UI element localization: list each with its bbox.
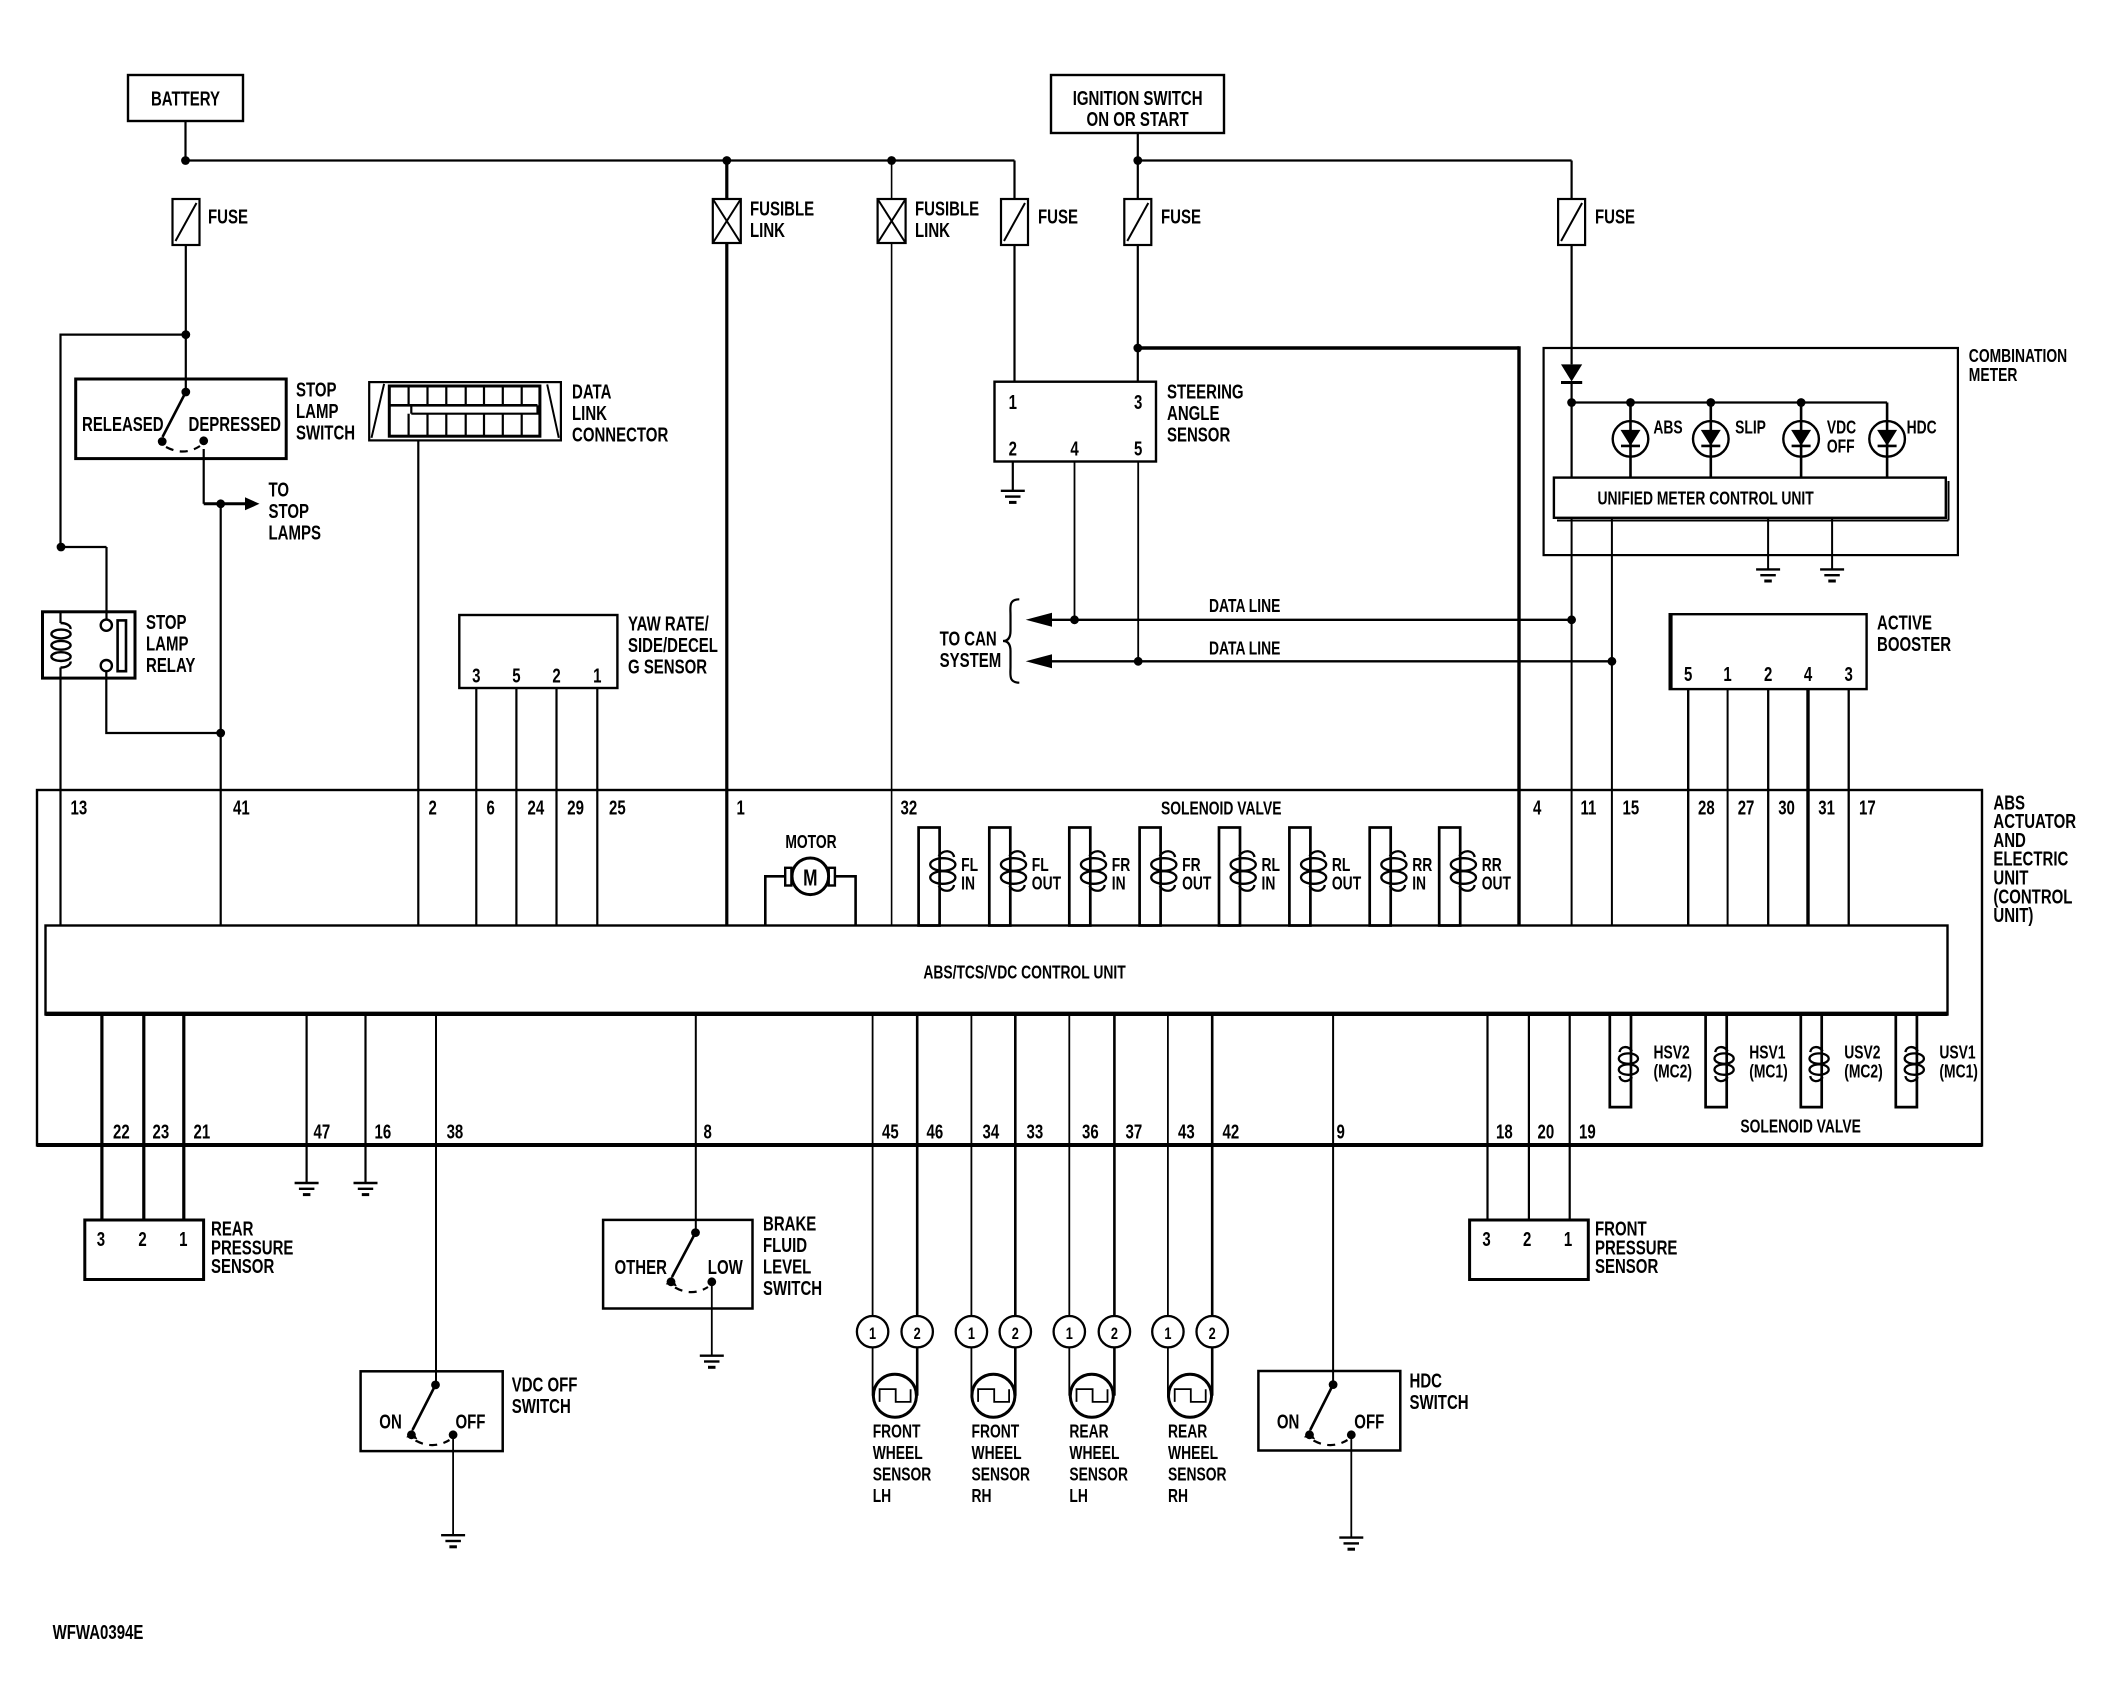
wire top supply bus (battery) xyxy=(186,159,1015,161)
svg-text:(MC2): (MC2) xyxy=(1844,1062,1883,1082)
svg-text:45: 45 xyxy=(882,1120,899,1143)
svg-text:2: 2 xyxy=(1111,1324,1118,1343)
svg-text:USV1: USV1 xyxy=(1939,1043,1975,1063)
wheel sensor FRONT WHEEL SENSOR RH xyxy=(956,1316,987,1347)
svg-text:STEERING: STEERING xyxy=(1167,380,1244,403)
svg-text:SENSOR: SENSOR xyxy=(1595,1255,1658,1278)
wire relay to ABS pin 13 xyxy=(59,678,61,790)
wheel sensor FRONT WHEEL SENSOR LH xyxy=(857,1316,888,1347)
ABS/TCS/VDC control unit U1a xyxy=(46,926,1948,1015)
warning lamp SLIP xyxy=(1710,403,1713,478)
wire fuse F4 to combination meter xyxy=(1570,245,1572,364)
svg-text:OFF: OFF xyxy=(1827,437,1855,457)
svg-text:FR: FR xyxy=(1112,855,1131,875)
solenoid valve USV2 (MC2) xyxy=(1801,1015,1822,1108)
svg-text:15: 15 xyxy=(1623,796,1640,819)
svg-text:HSV2: HSV2 xyxy=(1654,1043,1690,1063)
HDC switch S4 xyxy=(1258,1371,1400,1451)
svg-text:LEVEL: LEVEL xyxy=(763,1255,811,1278)
svg-text:2: 2 xyxy=(1012,1324,1019,1343)
wire pin 1 internal xyxy=(725,790,728,926)
wire bus drop to fusible link 2 xyxy=(891,161,893,200)
svg-text:STOP: STOP xyxy=(269,500,310,523)
wire yaw pin3 to ABS pin 6 xyxy=(475,688,477,790)
svg-text:6: 6 xyxy=(487,796,495,819)
wire lamp bus feed down xyxy=(1570,403,1572,478)
svg-text:SWITCH: SWITCH xyxy=(512,1395,571,1418)
wire pin 42 to rear wheel sensor RH xyxy=(1211,1015,1214,1317)
wire pin 36 to rear wheel sensor LH xyxy=(1068,1015,1070,1317)
svg-text:ABS/TCS/VDC CONTROL UNIT: ABS/TCS/VDC CONTROL UNIT xyxy=(923,963,1125,983)
svg-text:OTHER: OTHER xyxy=(615,1256,668,1279)
wire REAR WHEEL SENSOR LH pin2 lead xyxy=(1113,1347,1116,1395)
svg-text:SENSOR: SENSOR xyxy=(1167,423,1230,446)
solenoid valve RR IN xyxy=(1370,828,1391,926)
wire FRONT WHEEL SENSOR LH pin1 lead xyxy=(872,1347,874,1395)
wire steering pin5 to data line 2 xyxy=(1137,462,1139,662)
svg-text:FL: FL xyxy=(1032,855,1049,875)
wire stop lamp switch to stop lamps / pin 41 xyxy=(203,449,205,504)
svg-text:31: 31 xyxy=(1818,796,1835,819)
solenoid valve FR OUT xyxy=(1140,828,1161,926)
wire booster pin4 to ABS pin 31 xyxy=(1806,689,1809,790)
wire pin 16 to ground xyxy=(364,1015,366,1184)
svg-text:UNIFIED METER CONTROL UNIT: UNIFIED METER CONTROL UNIT xyxy=(1598,489,1814,509)
svg-text:36: 36 xyxy=(1082,1120,1099,1143)
wire branch to stop lamp relay coil xyxy=(61,335,186,547)
svg-text:BOOSTER: BOOSTER xyxy=(1877,633,1951,656)
svg-text:UNIT): UNIT) xyxy=(1993,904,2033,927)
node to-stop-lamps branch xyxy=(216,499,225,508)
svg-text:RR: RR xyxy=(1482,855,1502,875)
ground brake fluid level switch xyxy=(700,1354,724,1356)
svg-text:FUSE: FUSE xyxy=(208,205,248,228)
wheel sensor body REAR WHEEL SENSOR RH xyxy=(1169,1374,1212,1417)
fuse F2 xyxy=(1001,199,1028,245)
wire brake fluid switch to ground xyxy=(711,1282,713,1356)
wire fusible link 1 to ABS pin 1 xyxy=(725,243,728,790)
ground pin 47 xyxy=(295,1182,319,1184)
wire pin 29 internal xyxy=(555,790,557,926)
wire HDC switch to ground xyxy=(1350,1435,1352,1538)
svg-text:RH: RH xyxy=(972,1486,992,1506)
svg-text:13: 13 xyxy=(71,796,88,819)
svg-text:38: 38 xyxy=(447,1120,464,1143)
svg-text:REAR: REAR xyxy=(1069,1422,1108,1442)
svg-text:2: 2 xyxy=(914,1324,921,1343)
wire UMCU ground 1 xyxy=(1767,518,1769,570)
wire bus drop to fusible link 1 xyxy=(725,161,728,200)
wire pin 43 to rear wheel sensor RH xyxy=(1167,1015,1169,1317)
svg-text:34: 34 xyxy=(983,1120,1000,1143)
svg-text:TO: TO xyxy=(269,478,290,501)
wheel sensor body FRONT WHEEL SENSOR RH xyxy=(972,1374,1015,1417)
ignition switch S1 xyxy=(1051,75,1224,133)
svg-text:3: 3 xyxy=(1134,391,1142,414)
node data line 2 / UMCU xyxy=(1608,657,1617,666)
svg-text:OUT: OUT xyxy=(1482,874,1511,894)
wire fuse F1 to stop lamp switch xyxy=(185,245,187,335)
svg-text:HDC: HDC xyxy=(1410,1369,1443,1392)
svg-text:8: 8 xyxy=(704,1120,712,1143)
svg-text:1: 1 xyxy=(737,796,745,819)
svg-text:ON: ON xyxy=(379,1411,401,1434)
ground VDC OFF switch xyxy=(441,1534,465,1536)
svg-text:33: 33 xyxy=(1027,1120,1044,1143)
svg-text:DATA: DATA xyxy=(572,380,612,403)
svg-text:2: 2 xyxy=(552,664,560,687)
svg-text:4: 4 xyxy=(1804,663,1812,686)
arrow to stop lamps xyxy=(245,497,260,510)
svg-text:FUSIBLE: FUSIBLE xyxy=(750,197,814,220)
wire DLC to ABS pin 2 xyxy=(417,440,419,790)
svg-text:25: 25 xyxy=(609,796,626,819)
wire UMCU to ABS pin 15 (data line 2 tap) xyxy=(1611,518,1613,790)
ground UMCU 1 xyxy=(1756,568,1780,570)
svg-text:19: 19 xyxy=(1579,1120,1596,1143)
svg-text:2: 2 xyxy=(1209,1324,1216,1343)
svg-text:24: 24 xyxy=(528,796,545,819)
svg-text:2: 2 xyxy=(1523,1228,1531,1251)
svg-text:USV2: USV2 xyxy=(1844,1043,1880,1063)
svg-text:RL: RL xyxy=(1332,855,1351,875)
svg-text:VDC: VDC xyxy=(1827,418,1856,438)
svg-text:WHEEL: WHEEL xyxy=(972,1443,1022,1463)
svg-text:1: 1 xyxy=(1723,663,1731,686)
svg-text:2: 2 xyxy=(1764,663,1772,686)
solenoid valve USV1 (MC1) xyxy=(1896,1015,1917,1108)
svg-text:COMBINATION: COMBINATION xyxy=(1969,346,2067,366)
svg-text:30: 30 xyxy=(1778,796,1795,819)
wire steering pin2 to ground xyxy=(1012,462,1014,491)
wire relay coil branch xyxy=(57,543,66,552)
wire warning lamp bus xyxy=(1572,401,1888,403)
wire REAR WHEEL SENSOR RH pin1 lead xyxy=(1167,1347,1169,1395)
wire UMCU ground 2 xyxy=(1831,518,1833,570)
wire yaw pin1 to ABS pin 25 xyxy=(596,688,598,790)
wheel sensor REAR WHEEL SENSOR LH xyxy=(1054,1316,1085,1347)
svg-text:WHEEL: WHEEL xyxy=(873,1443,923,1463)
svg-text:5: 5 xyxy=(512,664,520,687)
wire booster pin1 to ABS pin 27 xyxy=(1727,689,1729,790)
wheel sensor body REAR WHEEL SENSOR LH xyxy=(1070,1374,1113,1417)
wire FRONT WHEEL SENSOR RH pin2 lead xyxy=(1014,1347,1017,1395)
svg-text:46: 46 xyxy=(927,1120,944,1143)
svg-text:18: 18 xyxy=(1496,1120,1513,1143)
wire pin 24 internal xyxy=(515,790,517,926)
wire pin 22 to rear pressure sensor pin 3 xyxy=(100,1015,103,1221)
svg-text:SOLENOID VALVE: SOLENOID VALVE xyxy=(1740,1117,1861,1137)
combination meter M1 xyxy=(1544,348,1958,555)
svg-text:32: 32 xyxy=(901,796,918,819)
wire pin 32 internal xyxy=(891,790,893,926)
svg-text:RR: RR xyxy=(1412,855,1432,875)
svg-text:BATTERY: BATTERY xyxy=(151,87,220,110)
svg-text:HSV1: HSV1 xyxy=(1749,1043,1785,1063)
svg-text:SENSOR: SENSOR xyxy=(1168,1465,1227,1485)
svg-text:20: 20 xyxy=(1538,1120,1555,1143)
wire pin 9 to HDC switch xyxy=(1332,1015,1334,1385)
svg-text:SOLENOID VALVE: SOLENOID VALVE xyxy=(1161,799,1282,819)
svg-text:2: 2 xyxy=(138,1228,146,1251)
svg-text:21: 21 xyxy=(194,1120,211,1143)
wheel sensor REAR WHEEL SENSOR RH xyxy=(1152,1316,1183,1347)
wire into stop lamp switch xyxy=(185,335,187,392)
wire fuse F2 to steering sensor pin 1 xyxy=(1013,245,1015,382)
node lamp bus ABS lamp xyxy=(1626,398,1635,407)
node relay contact / pin41 junction xyxy=(216,729,225,738)
svg-text:ON: ON xyxy=(1277,1411,1299,1434)
svg-text:IN: IN xyxy=(1112,874,1126,894)
svg-text:OUT: OUT xyxy=(1032,874,1061,894)
ground HDC switch xyxy=(1339,1536,1363,1538)
warning lamp ABS xyxy=(1629,403,1632,478)
svg-text:WHEEL: WHEEL xyxy=(1069,1443,1119,1463)
fuse F4 xyxy=(1558,199,1585,245)
svg-text:2: 2 xyxy=(429,796,437,819)
stop lamp relay K1 xyxy=(43,612,136,678)
svg-text:STOP: STOP xyxy=(146,611,187,634)
svg-text:METER: METER xyxy=(1969,365,2018,385)
svg-text:1: 1 xyxy=(968,1324,975,1343)
svg-text:BRAKE: BRAKE xyxy=(763,1212,816,1235)
svg-text:FRONT: FRONT xyxy=(873,1422,921,1442)
svg-text:HDC: HDC xyxy=(1907,418,1937,438)
wire pin 2 internal xyxy=(417,790,419,926)
node bus to fusible link 2 xyxy=(887,156,896,165)
svg-text:STOP: STOP xyxy=(296,378,337,401)
svg-text:OFF: OFF xyxy=(1354,1411,1384,1434)
svg-text:LAMPS: LAMPS xyxy=(269,521,322,544)
svg-text:22: 22 xyxy=(113,1120,130,1143)
svg-text:MOTOR: MOTOR xyxy=(785,832,837,852)
stop lamp switch S2 xyxy=(76,379,287,459)
solenoid valve HSV2 (MC2) xyxy=(1610,1015,1631,1108)
svg-text:42: 42 xyxy=(1223,1120,1240,1143)
svg-text:27: 27 xyxy=(1738,796,1755,819)
wire pin 45 to front wheel sensor LH xyxy=(872,1015,874,1317)
active booster U3 xyxy=(1670,614,1867,689)
svg-text:3: 3 xyxy=(1482,1228,1490,1251)
svg-text:IN: IN xyxy=(1262,874,1276,894)
svg-text:1: 1 xyxy=(179,1228,187,1251)
front pressure sensor G4 xyxy=(1470,1220,1589,1280)
node data line 1 / steering pin4 xyxy=(1070,615,1079,624)
wire yaw pin5 to ABS pin 24 xyxy=(515,688,517,790)
wire pin 31 internal xyxy=(1806,790,1809,926)
svg-text:DATA LINE: DATA LINE xyxy=(1209,639,1280,659)
wire pin 11 internal xyxy=(1571,790,1573,926)
svg-text:OFF: OFF xyxy=(456,1411,486,1434)
wire booster pin5 to ABS pin 28 xyxy=(1687,689,1689,790)
ground steering sensor xyxy=(1001,490,1025,492)
wire pin 21 to rear pressure sensor pin 1 xyxy=(182,1015,185,1221)
svg-text:WHEEL: WHEEL xyxy=(1168,1443,1218,1463)
node lamp bus SLIP lamp xyxy=(1706,398,1715,407)
svg-text:1: 1 xyxy=(1164,1324,1171,1343)
wire pin 47 to ground xyxy=(306,1015,308,1184)
steering angle sensor G2 xyxy=(995,382,1157,462)
wire relay contact to junction xyxy=(106,671,220,733)
svg-text:4: 4 xyxy=(1070,437,1078,460)
svg-text:CONNECTOR: CONNECTOR xyxy=(572,423,668,446)
svg-text:RH: RH xyxy=(1168,1486,1188,1506)
svg-text:3: 3 xyxy=(97,1228,105,1251)
svg-text:DEPRESSED: DEPRESSED xyxy=(189,413,282,436)
svg-text:LAMP: LAMP xyxy=(146,632,189,655)
rear pressure sensor G3 xyxy=(85,1220,204,1280)
svg-text:REAR: REAR xyxy=(1168,1422,1207,1442)
svg-text:LH: LH xyxy=(1069,1486,1087,1506)
svg-text:SYSTEM: SYSTEM xyxy=(940,649,1002,672)
wire pin 41 internal xyxy=(220,790,222,926)
svg-text:RELEASED: RELEASED xyxy=(82,413,164,436)
svg-text:1: 1 xyxy=(1066,1324,1073,1343)
ground UMCU 2 xyxy=(1820,568,1844,570)
wire pin 8 to brake fluid level switch xyxy=(695,1015,697,1233)
wire pin 46 to front wheel sensor LH xyxy=(916,1015,919,1317)
svg-text:SIDE/DECEL: SIDE/DECEL xyxy=(628,634,718,657)
svg-text:3: 3 xyxy=(1845,663,1853,686)
solenoid valve FL IN xyxy=(919,828,940,926)
svg-text:29: 29 xyxy=(567,796,584,819)
svg-text:23: 23 xyxy=(153,1120,170,1143)
svg-text:(MC1): (MC1) xyxy=(1939,1062,1978,1082)
fusible link FL2 xyxy=(878,199,906,243)
svg-text:WFWA0394E: WFWA0394E xyxy=(53,1621,144,1644)
svg-text:9: 9 xyxy=(1337,1120,1345,1143)
svg-text:ACTIVE: ACTIVE xyxy=(1877,611,1932,634)
svg-text:37: 37 xyxy=(1126,1120,1143,1143)
VDC OFF switch S3 xyxy=(361,1371,503,1451)
svg-text:11: 11 xyxy=(1581,796,1597,819)
svg-text:SWITCH: SWITCH xyxy=(1410,1391,1469,1414)
svg-text:FUSE: FUSE xyxy=(1595,205,1635,228)
wire UMCU to ABS pin 11 (data line 1 tap) xyxy=(1571,518,1573,790)
wire battery to bus xyxy=(184,121,186,161)
brake fluid level switch S5 xyxy=(603,1220,752,1309)
wire REAR WHEEL SENSOR RH pin2 lead xyxy=(1211,1347,1214,1395)
svg-text:1: 1 xyxy=(1009,391,1017,414)
svg-text:FUSE: FUSE xyxy=(1161,205,1201,228)
ground pin 16 xyxy=(354,1182,378,1184)
wire pin 6 internal xyxy=(475,790,477,926)
warning lamp HDC xyxy=(1886,403,1889,478)
svg-text:SWITCH: SWITCH xyxy=(296,421,355,444)
wire VDC OFF switch to ground xyxy=(452,1435,454,1535)
data line 1 (CAN) xyxy=(1038,619,1572,621)
svg-text:4: 4 xyxy=(1533,796,1541,819)
node lamp bus VDC OFF lamp xyxy=(1797,398,1806,407)
wire down to ABS pin 41 xyxy=(220,504,222,733)
svg-text:1: 1 xyxy=(1564,1228,1572,1251)
wire booster pin3 to ABS pin 17 xyxy=(1848,689,1850,790)
svg-text:1: 1 xyxy=(869,1324,876,1343)
svg-text:ON OR START: ON OR START xyxy=(1087,108,1189,131)
wire pin 4 internal xyxy=(1517,790,1520,926)
wire motor left leg xyxy=(765,876,785,925)
svg-text:IN: IN xyxy=(1412,874,1426,894)
wire booster pin2 to ABS pin 30 xyxy=(1767,689,1769,790)
solenoid valve HSV1 (MC1) xyxy=(1706,1015,1727,1108)
svg-text:LINK: LINK xyxy=(915,219,950,242)
svg-text:41: 41 xyxy=(233,796,250,819)
wire pin 17 internal xyxy=(1848,790,1850,926)
diode D1 xyxy=(1561,364,1582,381)
svg-text:ANGLE: ANGLE xyxy=(1167,402,1220,425)
wire steering pin4 to data line 1 xyxy=(1074,462,1076,620)
svg-text:FUSIBLE: FUSIBLE xyxy=(915,197,979,220)
solenoid valve RL IN xyxy=(1219,828,1240,926)
svg-text:LOW: LOW xyxy=(708,1256,743,1279)
svg-text:LAMP: LAMP xyxy=(296,400,339,423)
wire pin 20 to front pressure sensor pin 2 xyxy=(1528,1015,1530,1221)
wire pin 23 to rear pressure sensor pin 2 xyxy=(142,1015,145,1221)
yaw rate/side/decel G sensor G1 xyxy=(459,615,617,688)
svg-text:ABS: ABS xyxy=(1653,418,1682,438)
wire FRONT WHEEL SENSOR RH pin1 lead xyxy=(970,1347,972,1395)
fuse F1 xyxy=(173,199,200,245)
svg-text:RL: RL xyxy=(1262,855,1281,875)
svg-text:DATA LINE: DATA LINE xyxy=(1209,596,1280,616)
svg-text:G SENSOR: G SENSOR xyxy=(628,655,707,678)
wire fuse F3 to steering sensor pin 3 xyxy=(1137,245,1139,382)
svg-text:47: 47 xyxy=(314,1120,331,1143)
solenoid valve RL OUT xyxy=(1289,828,1310,926)
svg-text:SENSOR: SENSOR xyxy=(211,1255,274,1278)
svg-text:OUT: OUT xyxy=(1332,874,1361,894)
wire pin 28 internal xyxy=(1687,790,1689,926)
solenoid valve RR OUT xyxy=(1439,828,1460,926)
wire pin 30 internal xyxy=(1767,790,1769,926)
unified meter control unit U2 xyxy=(1554,478,1946,518)
svg-text:3: 3 xyxy=(472,664,480,687)
svg-text:YAW RATE/: YAW RATE/ xyxy=(628,612,709,635)
wire ignition switch to bus xyxy=(1137,133,1139,199)
wire heavy feed to ABS pin 4 xyxy=(1138,346,1519,349)
warning lamp VDC OFF xyxy=(1800,403,1803,478)
wire FRONT WHEEL SENSOR LH pin2 lead xyxy=(916,1347,919,1395)
solenoid valve FR IN xyxy=(1069,828,1090,926)
node battery/bus junction xyxy=(181,156,190,165)
svg-text:SENSOR: SENSOR xyxy=(1069,1465,1128,1485)
wire pin 33 to front wheel sensor RH xyxy=(1014,1015,1017,1317)
wire pin 27 internal xyxy=(1727,790,1729,926)
wire pin 37 to rear wheel sensor LH xyxy=(1113,1015,1116,1317)
svg-text:IN: IN xyxy=(961,874,975,894)
wire yaw pin2 to ABS pin 29 xyxy=(555,688,557,790)
wire fusible link 2 to ABS pin 32 xyxy=(891,243,893,790)
wire top supply bus (ignition) xyxy=(1138,159,1572,161)
wire pin 15 internal xyxy=(1611,790,1613,926)
svg-text:28: 28 xyxy=(1698,796,1715,819)
wire pin 34 to front wheel sensor RH xyxy=(970,1015,972,1317)
node bus to fusible link 1 xyxy=(722,156,731,165)
wheel sensor body FRONT WHEEL SENSOR LH xyxy=(873,1374,916,1417)
svg-text:2: 2 xyxy=(1009,437,1017,460)
ABS actuator and electric unit (control unit) U1 xyxy=(37,790,1982,1146)
node lamp bus left xyxy=(1567,398,1576,407)
battery B1 xyxy=(128,75,243,121)
svg-text:LINK: LINK xyxy=(750,219,785,242)
svg-text:43: 43 xyxy=(1178,1120,1195,1143)
svg-text:(MC2): (MC2) xyxy=(1654,1062,1693,1082)
svg-text:1: 1 xyxy=(593,664,601,687)
svg-text:IGNITION SWITCH: IGNITION SWITCH xyxy=(1073,87,1203,110)
node stop-lamp-switch branch xyxy=(181,330,190,339)
wire pin 25 internal xyxy=(596,790,598,926)
wire pin 18 to front pressure sensor pin 3 xyxy=(1486,1015,1488,1221)
